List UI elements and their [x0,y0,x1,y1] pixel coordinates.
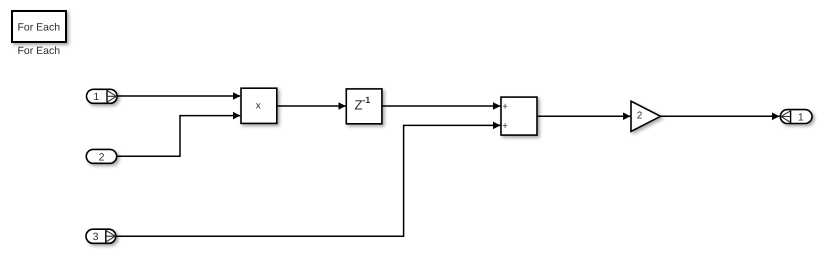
svg-text:+: + [502,121,508,132]
svg-text:x: x [256,101,261,112]
svg-text:1: 1 [93,91,99,103]
svg-text:For Each: For Each [17,45,60,57]
svg-text:+: + [502,102,508,113]
svg-text:3: 3 [93,231,99,243]
svg-text:2: 2 [637,111,643,122]
svg-text:2: 2 [99,151,105,163]
svg-text:-1: -1 [362,95,370,105]
svg-text:For Each: For Each [17,22,60,34]
svg-text:1: 1 [798,111,804,123]
